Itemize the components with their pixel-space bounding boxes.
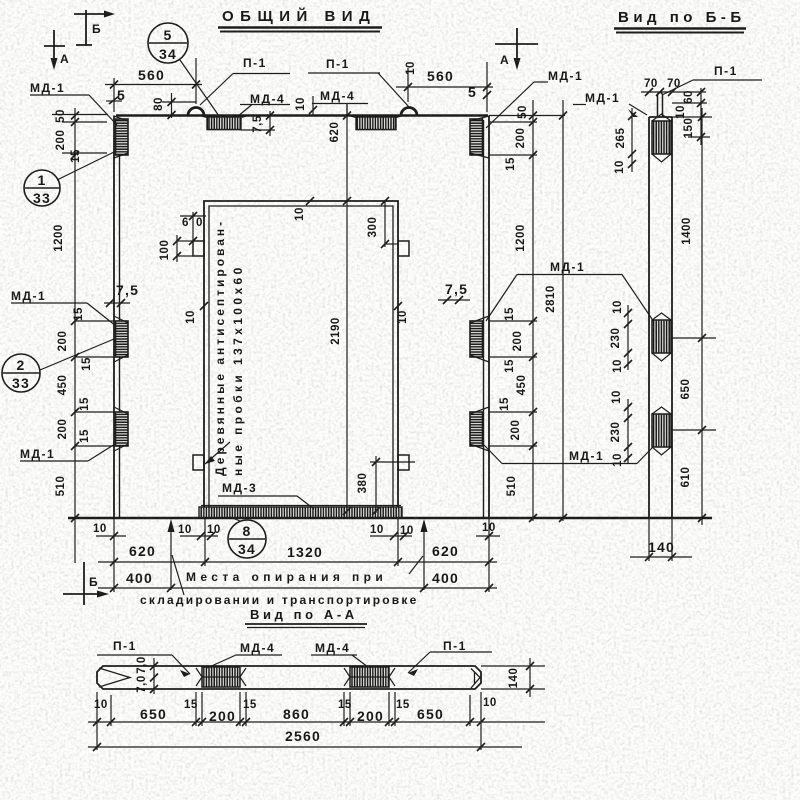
dim 140 right end [481, 665, 545, 667]
dim 10 inner left [200, 302, 208, 310]
section markers [44, 10, 538, 605]
title: ОБЩИЙ ВИД [218, 7, 746, 628]
svg-text:Деревянные антисептирован-: Деревянные антисептирован- [213, 219, 227, 476]
svg-text:П-1: П-1 [443, 639, 467, 653]
dim 265/10 left of top block [631, 108, 633, 172]
svg-text:200: 200 [55, 130, 67, 151]
dim 560 right [396, 86, 493, 88]
right total line 2810 [562, 100, 564, 521]
svg-text:265: 265 [615, 128, 627, 149]
marker Б top-left [85, 10, 87, 45]
svg-text:10: 10 [295, 97, 307, 111]
dim 70 70 at top [641, 91, 706, 93]
svg-text:15: 15 [79, 397, 91, 411]
svg-text:2: 2 [17, 357, 26, 373]
svg-text:620: 620 [129, 543, 156, 559]
svg-text:15: 15 [338, 699, 352, 711]
panel top edge [116, 114, 488, 117]
А-А strip outline [97, 666, 481, 689]
svg-text:10: 10 [611, 390, 623, 404]
dim 10 inner top [306, 197, 314, 205]
МД-1 block low (Б-Б) [652, 414, 671, 447]
svg-text:10: 10 [93, 523, 107, 535]
svg-text:34: 34 [159, 46, 177, 62]
svg-text:230: 230 [610, 422, 622, 443]
П-1 end wedge left [99, 668, 130, 687]
svg-text:Места опирания при: Места опирания при [186, 570, 387, 584]
svg-text:200: 200 [512, 331, 524, 352]
marker Б bottom-left [83, 562, 85, 605]
bottom dims [96, 518, 500, 607]
dim 620 top / 2190 inner vertical line [346, 104, 348, 518]
svg-text:А: А [60, 52, 70, 66]
extension verticals А-А [96, 692, 98, 750]
svg-text:1400: 1400 [681, 217, 693, 245]
svg-text:10: 10 [400, 525, 414, 537]
support point arrow left [170, 524, 172, 590]
svg-text:7,0: 7,0 [136, 675, 148, 693]
marker А top-left [53, 30, 55, 58]
svg-text:200: 200 [515, 128, 527, 149]
callout 5/34 [148, 23, 188, 63]
dim 100 upper-left tab [176, 235, 178, 262]
МД-1 block mid-left [116, 321, 129, 357]
right chain 1400/650/610 [701, 108, 703, 525]
svg-text:10: 10 [612, 453, 624, 467]
svg-text:Б: Б [89, 575, 99, 589]
svg-text:6: 6 [182, 217, 189, 229]
svg-text:0: 0 [196, 217, 203, 229]
svg-text:7,5: 7,5 [116, 282, 139, 298]
svg-text:МД-4: МД-4 [320, 89, 355, 103]
svg-text:складировании и транспортировк: складировании и транспортировке [140, 593, 418, 607]
svg-text:15: 15 [184, 699, 198, 711]
dim 380 right of opening lower [375, 456, 377, 513]
Б-Б strip outline [648, 117, 650, 518]
МД-1 block low-left [116, 412, 129, 446]
dim 70/70 left end [153, 658, 155, 694]
svg-text:140: 140 [508, 668, 520, 689]
svg-text:МД-3: МД-3 [222, 481, 257, 495]
svg-text:МД-1: МД-1 [585, 91, 620, 105]
svg-text:МД-1: МД-1 [550, 260, 585, 274]
svg-text:15: 15 [504, 359, 516, 373]
svg-text:5: 5 [164, 27, 173, 43]
plug tab lower-right [398, 455, 409, 470]
svg-text:10: 10 [178, 524, 192, 536]
svg-text:620: 620 [432, 543, 459, 559]
dim 10 inner right [394, 302, 402, 310]
dim 60/10/150 right of top block [700, 88, 702, 145]
svg-text:140: 140 [648, 539, 675, 555]
svg-text:2190: 2190 [330, 317, 342, 345]
svg-text:15: 15 [70, 149, 82, 163]
svg-text:П-1: П-1 [243, 56, 267, 70]
callout 8/34 [228, 520, 266, 558]
slash ticks chain [529, 112, 537, 523]
svg-text:300: 300 [367, 217, 379, 238]
svg-text:560: 560 [427, 68, 454, 84]
slash ticks [71, 112, 79, 523]
svg-text:10: 10 [612, 300, 624, 314]
svg-text:10: 10 [397, 310, 409, 324]
svg-text:10: 10 [294, 207, 306, 221]
П-1 lifting loop left [188, 108, 204, 116]
svg-text:10: 10 [207, 524, 221, 536]
МД-4 recess left on top edge [200, 116, 248, 130]
dim 80 hook left [162, 101, 196, 103]
svg-text:1: 1 [38, 172, 47, 188]
extension verticals [113, 518, 115, 592]
svg-text:510: 510 [506, 476, 518, 497]
svg-text:ные пробки 137х100х60: ные пробки 137х100х60 [231, 264, 245, 476]
left chain line [74, 108, 76, 563]
svg-text:МД-4: МД-4 [240, 641, 275, 655]
svg-text:МД-1: МД-1 [548, 69, 583, 83]
П-1 loop side view [658, 93, 663, 118]
МД-1 block top (Б-Б) [652, 121, 671, 154]
connectors to panel [52, 114, 108, 116]
dim chain line А-А [88, 721, 545, 723]
callouts [2, 23, 266, 558]
note leader to plug tab [205, 442, 230, 464]
svg-text:10: 10 [405, 61, 417, 75]
МД-3 hatched strip [199, 507, 402, 518]
svg-text:8: 8 [243, 523, 252, 539]
svg-text:650: 650 [417, 706, 444, 722]
plug tab upper-right [398, 241, 409, 256]
МД-4 block left (А-А) [202, 667, 240, 687]
dim line 620/1320/620 [98, 561, 497, 563]
svg-text:200: 200 [510, 420, 522, 441]
inner opening outer rect [204, 201, 398, 507]
dim 60 upper-left tab [192, 212, 194, 241]
dim 140 bottom of strip [648, 518, 650, 561]
МД-1 block top-left [116, 119, 129, 155]
svg-text:650: 650 [680, 379, 692, 400]
panel bottom edge / base line [68, 517, 712, 519]
dim 10 top centre [312, 96, 314, 115]
svg-text:860: 860 [283, 706, 310, 722]
svg-text:1200: 1200 [515, 224, 527, 252]
svg-text:200: 200 [57, 331, 69, 352]
dim 300 right of opening [384, 201, 386, 247]
svg-text:15: 15 [73, 307, 85, 321]
panel left edge (double line) [113, 116, 115, 519]
panel right edge (double line) [488, 116, 490, 519]
dim 10/230/10 left of low block [627, 399, 629, 464]
svg-text:1320: 1320 [287, 544, 323, 560]
svg-text:650: 650 [140, 706, 167, 722]
svg-text:150: 150 [683, 118, 695, 139]
svg-text:50: 50 [55, 109, 67, 123]
view A-A [88, 639, 545, 751]
svg-text:400: 400 [432, 570, 459, 586]
П-1 end wedge right [471, 669, 480, 689]
svg-text:50: 50 [517, 105, 529, 119]
svg-text:7,5: 7,5 [445, 281, 468, 297]
svg-text:МД-1: МД-1 [20, 447, 55, 461]
МД-4 recess right on top edge [349, 116, 403, 130]
svg-text:Вид по А-А: Вид по А-А [250, 607, 358, 622]
svg-text:33: 33 [12, 375, 30, 391]
svg-text:10: 10 [483, 697, 497, 709]
inner opening inner rect [209, 206, 393, 507]
right dim column [438, 100, 567, 534]
main panel [68, 108, 712, 519]
svg-text:МД-1: МД-1 [569, 449, 604, 463]
dim 7,5 recess depth [269, 111, 271, 136]
svg-text:2560: 2560 [285, 728, 321, 744]
МД-1 block mid-right [470, 321, 483, 357]
svg-text:7,5: 7,5 [252, 115, 264, 133]
МД-1 block low-right [470, 412, 483, 446]
svg-text:5: 5 [468, 84, 477, 100]
svg-text:МД-1: МД-1 [11, 289, 46, 303]
svg-text:620: 620 [329, 122, 341, 143]
svg-text:15: 15 [396, 699, 410, 711]
svg-text:100: 100 [159, 240, 171, 261]
svg-text:610: 610 [680, 467, 692, 488]
top dimensions [105, 58, 493, 518]
svg-text:15: 15 [81, 357, 93, 371]
svg-text:ОБЩИЙ ВИД: ОБЩИЙ ВИД [222, 7, 376, 25]
svg-text:Б: Б [92, 22, 102, 36]
callout 1/33 [24, 170, 60, 206]
svg-text:230: 230 [610, 328, 622, 349]
slash ticks total [559, 112, 567, 523]
svg-text:10: 10 [612, 359, 624, 373]
МД-1 block top-right [470, 119, 483, 155]
svg-text:70: 70 [667, 78, 681, 90]
svg-text:15: 15 [499, 397, 511, 411]
svg-text:П-1: П-1 [113, 639, 137, 653]
svg-text:34: 34 [238, 541, 256, 557]
plug tab upper-left [193, 241, 204, 256]
svg-text:400: 400 [126, 570, 153, 586]
svg-text:10: 10 [185, 310, 197, 324]
svg-text:МД-1: МД-1 [30, 81, 65, 95]
svg-text:1200: 1200 [53, 224, 65, 252]
svg-text:10: 10 [370, 524, 384, 536]
svg-text:МД-4: МД-4 [315, 641, 350, 655]
svg-text:560: 560 [138, 67, 165, 83]
dim 560 left [105, 84, 202, 86]
dim line 400/400 [98, 587, 497, 589]
svg-text:80: 80 [153, 97, 165, 111]
svg-text:15: 15 [504, 307, 516, 321]
connectors [489, 115, 565, 117]
dim 2560 total [88, 746, 522, 748]
svg-text:7,0: 7,0 [136, 656, 148, 674]
svg-text:33: 33 [33, 190, 51, 206]
svg-text:60: 60 [683, 90, 695, 104]
МД-1 block mid (Б-Б) [652, 320, 671, 353]
svg-text:200: 200 [357, 708, 384, 724]
svg-text:70: 70 [644, 78, 658, 90]
svg-text:380: 380 [357, 473, 369, 494]
svg-text:200: 200 [209, 708, 236, 724]
МД-4 block right (А-А) [350, 667, 389, 687]
svg-text:200: 200 [57, 419, 69, 440]
svg-text:15: 15 [505, 157, 517, 171]
svg-text:П-1: П-1 [326, 57, 350, 71]
svg-text:15: 15 [79, 429, 91, 443]
dim 10 short lines row [96, 535, 126, 537]
svg-text:10: 10 [614, 160, 626, 174]
left dim column [52, 108, 139, 563]
svg-text:510: 510 [55, 476, 67, 497]
plug tab lower-left [193, 455, 204, 470]
svg-text:10: 10 [94, 699, 108, 711]
svg-text:2810: 2810 [545, 285, 557, 313]
svg-text:П-1: П-1 [714, 64, 738, 78]
svg-text:450: 450 [516, 375, 528, 396]
marker А top-right [516, 28, 518, 58]
support point arrow right [423, 524, 425, 590]
svg-text:Вид по Б-Б: Вид по Б-Б [618, 9, 746, 26]
svg-text:А: А [500, 53, 510, 67]
callout 2/33 [2, 354, 40, 392]
П-1 lifting loop right [401, 108, 417, 116]
dim 10/230/10 left of mid block [627, 305, 629, 370]
svg-text:15: 15 [243, 699, 257, 711]
view B-B [610, 64, 762, 561]
svg-text:450: 450 [57, 375, 69, 396]
right chain line [532, 100, 534, 521]
